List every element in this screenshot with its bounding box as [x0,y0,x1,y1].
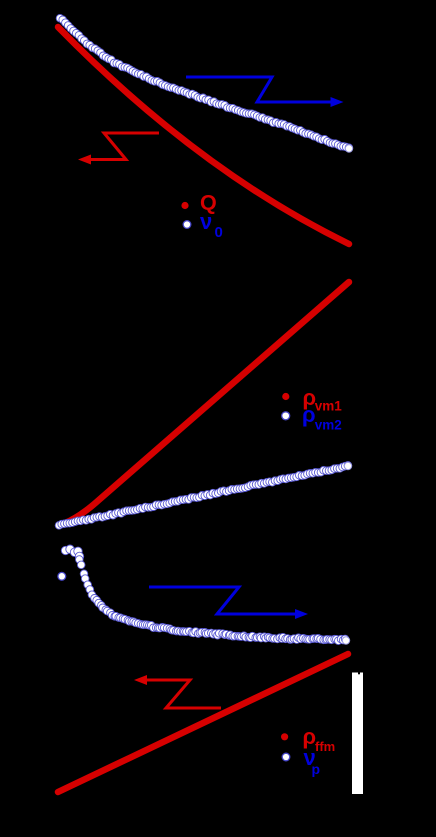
svg-text:p: p [312,761,321,777]
svg-text:ρ: ρ [302,402,316,427]
curve rho_vm1 (middle red line) [65,282,349,523]
curve rho_film (bottom red line) [58,654,348,792]
svg-text:0: 0 [215,224,223,241]
legend marker rho_film [281,733,288,740]
svg-text:vm2: vm2 [315,418,342,433]
scale bar (white) [352,673,363,795]
arrow blue right (top) [186,77,344,107]
legend marker rho_vm1 [282,393,289,400]
svg-text:ν: ν [200,209,212,234]
start cluster [61,546,69,554]
svg-text:ffm: ffm [315,739,335,754]
legend marker rho_vm2 [282,412,290,420]
curve nu_p (bottom blue circle chain) [58,545,350,645]
legend marker nu0 [183,221,191,229]
arrow blue right (bottom) [149,587,308,619]
curve Q (top red decay) [58,27,349,244]
legend marker nu_p [282,753,290,761]
svg-text:vm1: vm1 [315,399,343,414]
curve nu0 (top blue circle chain) [56,14,353,152]
outlier point [58,572,66,580]
arrow red left (top) [78,133,159,165]
legend marker Q [181,202,188,209]
arrow red left (bottom) [134,675,221,708]
curve rho_vm2 (middle blue circle chain) [55,462,352,530]
